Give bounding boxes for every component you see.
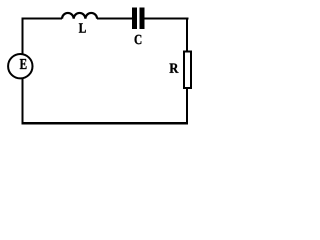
label L [79,23,86,32]
wire: left side [21,19,23,124]
source E (circle) [8,54,32,78]
wire: top-right segment from capacitor to corner [144,18,188,20]
wire: right side below resistor [186,88,188,124]
inductor L (3 humps) [62,13,97,19]
wire: top segment from inductor to capacitor [97,18,132,20]
wire: bottom segment [21,122,188,125]
wire: top-left segment from corner to inductor [21,18,62,20]
resistor R (box) [184,51,191,88]
label C [135,35,142,44]
label R [170,64,179,73]
capacitor C right plate [140,7,145,29]
label E [20,59,27,69]
capacitor C left plate [132,7,137,29]
wire: right side above resistor [186,18,188,53]
